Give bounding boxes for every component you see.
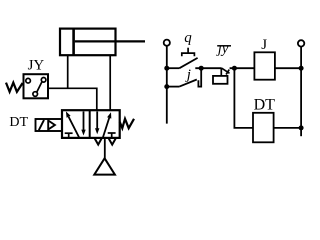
svg-text:DT: DT — [254, 97, 276, 114]
svg-text:J: J — [261, 37, 267, 53]
svg-text:JY: JY — [28, 58, 45, 74]
svg-text:DT: DT — [9, 115, 28, 130]
svg-text:q: q — [184, 30, 192, 46]
